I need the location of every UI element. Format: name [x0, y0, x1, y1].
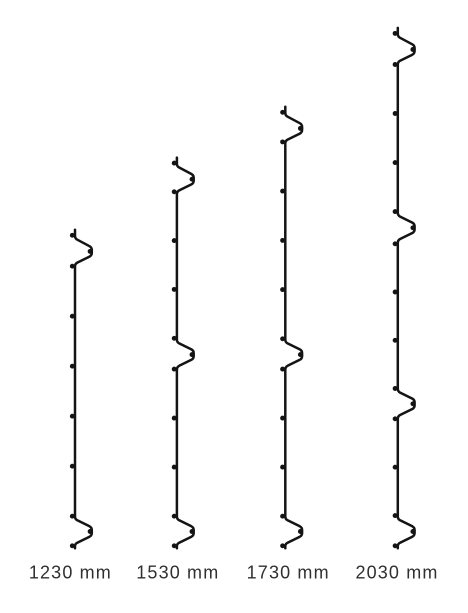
svg-text:2030 mm: 2030 mm: [355, 562, 438, 582]
rail R1 slot dots: [70, 233, 93, 548]
wall upright rail R2 outline: [177, 158, 194, 549]
wall upright rail R3 outline: [285, 107, 302, 549]
wall upright rail R1 outline: [75, 230, 92, 549]
svg-text:1730 mm: 1730 mm: [247, 562, 330, 582]
rail R3 slot dots: [280, 110, 303, 548]
svg-text:1530 mm: 1530 mm: [136, 562, 219, 582]
svg-text:1230 mm: 1230 mm: [29, 562, 112, 582]
rail R2 slot dots: [172, 161, 195, 549]
rail R4 slot dots: [393, 31, 416, 548]
wall upright rail R4 outline: [398, 28, 415, 548]
